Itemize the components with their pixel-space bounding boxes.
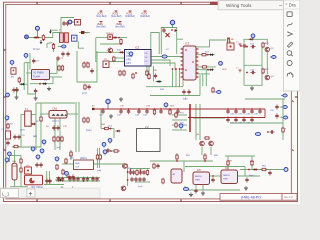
capacitor C24c <box>176 108 179 114</box>
resistor R51 <box>52 43 54 49</box>
Wiring Tools palette <box>218 1 284 10</box>
resistor R14 <box>119 70 121 76</box>
svg-text:(Vout Ref): (Vout Ref) <box>111 15 122 18</box>
wire <box>23 63 25 90</box>
capacitor C42 <box>69 152 72 157</box>
op-amp IC4 <box>171 169 182 183</box>
cap bank b7 <box>86 177 89 182</box>
junction <box>135 72 137 74</box>
svg-text:VD: VD <box>145 53 148 55</box>
junction <box>109 51 111 53</box>
capacitor C19 <box>101 108 104 114</box>
svg-text:(out): (out) <box>138 185 143 188</box>
capacitor C26 <box>234 108 237 114</box>
svg-text:CN1: CN1 <box>52 107 58 111</box>
resistor R16 <box>120 38 122 44</box>
resistor R5 <box>262 42 270 48</box>
ground <box>201 191 205 195</box>
resistor R21 <box>201 54 207 56</box>
resistor R25 <box>7 123 9 129</box>
wire <box>114 57 125 59</box>
wire <box>196 73 210 75</box>
diode D15 <box>209 69 214 71</box>
power flag F6 <box>115 22 125 29</box>
node flag <box>251 34 255 39</box>
wire VBUS2 <box>188 117 265 119</box>
wire <box>50 72 58 74</box>
wire <box>230 122 283 124</box>
resistor R50 <box>176 154 178 160</box>
resistor R42 <box>70 151 72 157</box>
resistor R43 <box>65 158 67 164</box>
wire <box>196 54 215 56</box>
resistor R31 <box>83 117 85 123</box>
wire <box>105 150 120 152</box>
capacitor C56 <box>156 163 159 168</box>
node flag left <box>65 171 69 176</box>
diode D1 <box>33 36 38 38</box>
svg-text:(HW)-48-PO: (HW)-48-PO <box>241 196 261 200</box>
wire <box>146 66 148 76</box>
wire <box>28 62 36 94</box>
wire <box>14 180 16 187</box>
module box B1 <box>74 157 94 170</box>
capacitor C13c <box>87 84 90 89</box>
header P3 <box>103 61 109 68</box>
red cluster r1 <box>129 169 132 175</box>
resistor R56 <box>113 56 115 62</box>
wire <box>8 156 10 163</box>
junction row <box>172 68 184 70</box>
fuse F2 <box>6 131 11 139</box>
misc tiny labels <box>2 49 275 188</box>
cap CE1 <box>12 163 17 180</box>
capacitor C10 <box>61 51 64 56</box>
junction <box>171 29 173 31</box>
wire <box>172 114 187 116</box>
node flag <box>40 149 44 154</box>
svg-text:(ntc): (ntc) <box>70 157 74 160</box>
svg-text:SEN: SEN <box>75 163 80 165</box>
power flag <box>236 42 242 47</box>
wire <box>48 171 50 185</box>
wire <box>161 28 176 55</box>
capacitor C18 <box>187 89 190 94</box>
wire <box>53 44 55 52</box>
wire <box>196 40 226 47</box>
resistor R41 <box>62 169 64 175</box>
wire <box>172 69 174 87</box>
resistor R54 <box>251 160 253 166</box>
capacitor C45 <box>45 178 48 183</box>
wire <box>56 180 100 182</box>
resistor R52 <box>162 178 164 184</box>
diode D10 <box>57 179 62 181</box>
wire <box>95 38 97 62</box>
resistor R8 <box>58 65 60 71</box>
node flag <box>219 61 223 65</box>
node flag right <box>282 116 288 119</box>
canvas background <box>0 0 300 204</box>
node flag circle <box>284 168 288 172</box>
node flag <box>170 20 174 27</box>
wire <box>199 104 201 140</box>
wire <box>244 39 267 85</box>
junction <box>212 175 214 177</box>
node flag <box>108 138 112 143</box>
svg-text:c: c <box>286 2 288 6</box>
junction <box>189 117 191 119</box>
wire <box>266 52 268 74</box>
node flag <box>42 140 46 145</box>
wire <box>26 72 32 74</box>
wire <box>244 43 262 85</box>
power flag F5 <box>96 22 106 29</box>
wire <box>195 104 197 140</box>
node flag <box>215 91 221 94</box>
resistor R51b <box>204 154 206 160</box>
wire <box>20 156 22 187</box>
wire <box>176 153 178 161</box>
wire <box>280 106 284 108</box>
cap bank b5 <box>76 177 79 182</box>
svg-text:U1 PWM: U1 PWM <box>33 71 43 75</box>
wire <box>35 94 37 96</box>
cap bank b2 <box>61 177 64 182</box>
diode D8 <box>31 123 36 125</box>
junction <box>189 108 191 110</box>
capacitor C53 <box>211 177 214 182</box>
svg-text:1N4007: 1N4007 <box>106 33 114 35</box>
resistor R24 <box>282 127 286 133</box>
ground <box>250 86 254 90</box>
wire <box>44 184 64 186</box>
resistor R53 <box>227 160 229 166</box>
red power bus rows <box>93 109 265 118</box>
svg-text:GP1: GP1 <box>126 62 131 65</box>
junction <box>127 171 129 173</box>
wire <box>14 150 16 163</box>
red cluster r6 <box>146 169 148 175</box>
resistor R45b <box>99 154 101 160</box>
red cluster r5 <box>142 170 145 175</box>
wire <box>21 114 25 116</box>
wire <box>29 53 31 70</box>
wire <box>151 63 175 70</box>
wire <box>135 181 150 183</box>
comps on bus right <box>169 108 171 115</box>
svg-text:(mains): (mains) <box>52 121 59 123</box>
node flag <box>36 155 40 160</box>
resistor R28 <box>53 136 55 142</box>
svg-text:Wiring Tools: Wiring Tools <box>226 3 252 8</box>
wire <box>244 64 262 66</box>
resistor R45a <box>96 154 98 160</box>
capacitor C40 <box>52 125 55 130</box>
resistor R26 <box>40 116 42 122</box>
node flag <box>24 53 28 58</box>
resistor R36 <box>175 122 177 128</box>
capacitor C29 <box>258 108 261 114</box>
node flag <box>103 150 107 155</box>
capacitor C4 <box>162 28 165 33</box>
capacitor C20 <box>119 108 122 114</box>
wire <box>177 38 183 40</box>
wire <box>103 61 125 63</box>
cap bank b1 <box>57 177 60 182</box>
wire <box>201 147 203 155</box>
resistor R12 <box>83 62 85 68</box>
wire <box>31 114 36 116</box>
relay K1 box <box>25 175 44 189</box>
junction <box>176 160 178 162</box>
wire <box>244 167 246 177</box>
wire <box>251 156 253 170</box>
diode D6 <box>42 83 47 85</box>
capacitor Ct2 <box>66 21 69 26</box>
junction <box>127 179 129 181</box>
transistor Q1 <box>265 47 274 52</box>
wire <box>148 66 150 79</box>
wire <box>12 103 41 147</box>
wire <box>54 118 56 150</box>
wire <box>55 179 64 181</box>
svg-text:(Vdd Ref): (Vdd Ref) <box>140 16 150 18</box>
component K2 <box>81 31 88 35</box>
wire <box>16 87 18 95</box>
junction <box>53 43 55 45</box>
capacitor C44 <box>39 162 42 167</box>
junction <box>248 169 250 171</box>
transistor Q12 <box>121 186 126 191</box>
wire <box>175 69 177 87</box>
svg-text:NE555: NE555 <box>223 175 230 177</box>
svg-text:(buz): (buz) <box>249 175 254 177</box>
wire <box>52 77 54 84</box>
transformer T2 top-left <box>59 31 68 43</box>
wire <box>24 62 30 64</box>
diode D7 <box>156 80 161 82</box>
capacitor C52 <box>194 188 197 193</box>
red cluster r3 <box>136 169 138 175</box>
wire <box>205 70 207 86</box>
wire <box>199 75 201 96</box>
junction <box>246 46 248 48</box>
component box small above relay <box>25 167 32 174</box>
diode D4 <box>249 38 254 40</box>
node flag right <box>270 56 276 59</box>
wire <box>196 66 216 68</box>
power flag top <box>227 38 235 44</box>
wire <box>99 148 101 168</box>
resistor R29 <box>57 136 59 142</box>
capacitor C8 <box>32 58 39 63</box>
svg-text:(vin): (vin) <box>108 126 112 128</box>
wire <box>172 119 187 121</box>
wire <box>100 43 121 45</box>
wire <box>94 163 128 165</box>
wire <box>10 186 28 188</box>
resistor R30 <box>61 136 63 142</box>
junction <box>38 37 40 39</box>
wire <box>245 98 285 100</box>
svg-text:rev 1.0: rev 1.0 <box>284 195 293 199</box>
svg-text:Dra: Dra <box>289 2 297 7</box>
resistor R48b <box>153 163 155 169</box>
wire <box>19 83 28 85</box>
capacitor C7 <box>250 69 256 74</box>
wire <box>280 116 284 119</box>
capacitor C17 <box>182 89 185 94</box>
wire <box>172 124 187 126</box>
wire <box>151 56 186 58</box>
wire <box>240 169 284 171</box>
cap bank b6 <box>82 177 85 182</box>
wire <box>30 83 53 85</box>
junction <box>207 54 209 56</box>
capacitor C30 <box>226 117 229 123</box>
ground <box>119 97 123 101</box>
junction <box>118 37 120 39</box>
capacitor C25 <box>226 108 229 114</box>
red cluster r2 <box>132 170 135 175</box>
wire <box>79 32 90 34</box>
wire <box>183 161 185 172</box>
ground <box>109 114 113 118</box>
node flag <box>10 60 14 65</box>
node flag oval <box>255 132 260 135</box>
ground <box>244 186 248 190</box>
wire <box>78 41 84 48</box>
junction <box>110 150 112 152</box>
wire <box>101 128 114 130</box>
power flag F2 <box>111 11 122 18</box>
wire <box>127 164 129 186</box>
power flag F3 <box>125 11 135 18</box>
wire <box>150 95 200 97</box>
resistor R15 <box>123 70 125 76</box>
capacitor C27 <box>242 108 245 114</box>
node flag <box>35 26 39 37</box>
wire <box>31 123 36 125</box>
capacitor C41 <box>56 125 59 130</box>
resistor R39b <box>20 167 22 173</box>
wire <box>100 109 102 129</box>
connector JP1 <box>11 68 16 74</box>
wire <box>96 37 127 39</box>
wire <box>70 150 72 160</box>
ground arrow <box>49 30 52 34</box>
resistor R9 <box>61 65 63 71</box>
ground <box>47 87 51 91</box>
wire <box>196 69 210 71</box>
wire <box>151 60 170 66</box>
bridge box DB1 <box>108 35 113 40</box>
wire <box>227 156 229 170</box>
node flag <box>55 157 59 162</box>
red cluster r4 <box>139 169 142 175</box>
junction <box>120 43 122 45</box>
svg-text:(t-on): (t-on) <box>86 129 92 132</box>
resistor R37 <box>204 137 210 139</box>
node flag top <box>106 99 110 109</box>
wire <box>56 177 100 179</box>
transistor Q7 <box>209 141 214 146</box>
wire <box>72 21 75 23</box>
ground <box>15 95 19 99</box>
wire <box>113 129 115 139</box>
diode D16 <box>20 83 25 85</box>
panel icons <box>287 12 293 78</box>
power flag <box>236 68 242 73</box>
node flag right <box>281 106 287 109</box>
red cluster r8 <box>134 177 137 182</box>
node flag <box>179 124 183 129</box>
IC U3 DIP <box>181 42 199 81</box>
crystal X1 <box>166 33 170 37</box>
resistor R27 <box>13 145 19 147</box>
junction <box>39 83 41 85</box>
wire <box>179 69 181 87</box>
resistor R12b <box>84 84 86 90</box>
capacitor C9b <box>56 56 64 61</box>
capacitor C35 <box>275 113 278 118</box>
svg-text:z: z <box>285 128 286 130</box>
resistor R57 <box>18 77 20 83</box>
cap bank b8 <box>91 177 94 182</box>
diode D17 <box>148 73 150 79</box>
diode D13 <box>119 51 124 53</box>
svg-text:VCC3: VCC3 <box>126 13 133 15</box>
svg-text:IC3: IC3 <box>185 42 190 46</box>
cap bank b9 <box>95 177 98 182</box>
wire <box>56 60 58 73</box>
wire VBUS1 <box>93 108 265 110</box>
capacitor C13b <box>15 87 18 92</box>
capacitor C13a <box>12 87 15 92</box>
sheet border frame outer <box>4 2 298 201</box>
svg-text:TL494: TL494 <box>33 76 40 79</box>
svg-text:(sel): (sel) <box>56 147 60 149</box>
capacitor C36 <box>267 130 275 133</box>
wire <box>193 117 225 119</box>
wire <box>189 104 191 132</box>
node flag right <box>281 94 287 97</box>
node flag <box>68 20 72 24</box>
polarity arrow <box>40 40 43 44</box>
wire <box>61 18 74 33</box>
ground <box>189 193 193 197</box>
bus terminal <box>92 108 94 110</box>
wire <box>62 163 74 165</box>
IC U2 MCU <box>125 46 152 66</box>
wire <box>50 29 57 31</box>
svg-text:R2x: R2x <box>128 168 132 170</box>
capacitor C46 <box>48 178 51 183</box>
capacitor C5 <box>242 44 247 47</box>
svg-text:(ac): (ac) <box>33 136 37 138</box>
capacitor C32 <box>242 117 245 123</box>
svg-text:(Vss Ref): (Vss Ref) <box>115 27 125 29</box>
ground <box>34 96 38 100</box>
ground <box>71 187 75 191</box>
wire <box>185 166 245 168</box>
diode D9 <box>116 130 121 132</box>
wire <box>75 102 77 152</box>
junction <box>246 72 248 74</box>
wire <box>47 43 52 49</box>
wire <box>59 118 61 150</box>
